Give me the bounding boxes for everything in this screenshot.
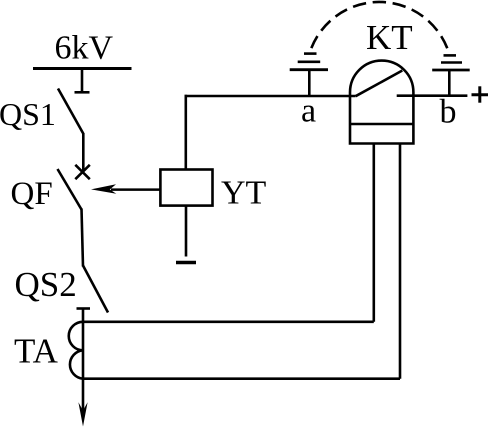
- contact a stub: [308, 70, 311, 96]
- wire: QS1 to breaker QF: [82, 133, 85, 172]
- wire: YT top vertical: [185, 95, 188, 170]
- svg-text:b: b: [440, 94, 457, 131]
- svg-text:QS2: QS2: [15, 265, 77, 304]
- svg-text:TA: TA: [14, 332, 59, 371]
- wire: KT inner terminal vertical: [372, 143, 375, 322]
- arrowhead outgoing feeder: [78, 402, 87, 426]
- svg-text:YT: YT: [221, 175, 267, 212]
- svg-text:QS1: QS1: [0, 96, 56, 132]
- breaker contact cross X: [75, 165, 90, 179]
- current transformer TA winding bumps: [69, 322, 83, 379]
- contact b stub: [448, 70, 451, 96]
- arrow YT to QF: [111, 188, 160, 191]
- disconnector QS1 blade: [58, 89, 84, 135]
- busbar 6kV: [33, 67, 132, 70]
- relay YT box: [160, 170, 212, 206]
- wire: contact b horizontal to plus: [397, 94, 468, 97]
- wire: top horizontal to KT contact a: [185, 95, 356, 98]
- time relay KT dome outline: [350, 61, 413, 144]
- svg-text:QF: QF: [11, 176, 53, 212]
- minus terminal below YT: [176, 261, 196, 264]
- circuit breaker QF blade: [58, 169, 82, 210]
- wire: busbar stub down to QS1 fixed contact: [81, 69, 84, 93]
- QS1 fixed contact T-bar: [75, 91, 90, 94]
- contact a plates: [298, 60, 321, 63]
- disconnector QS2 blade: [83, 266, 108, 313]
- svg-text:a: a: [301, 93, 316, 130]
- wire: KT outer terminal vertical: [399, 143, 402, 379]
- QS2 fixed contact T-bar: [77, 307, 91, 310]
- svg-text:6kV: 6kV: [55, 30, 114, 67]
- wire: YT bottom vertical: [185, 206, 188, 257]
- wire: QS2 down through TA to arrow: [82, 309, 85, 414]
- svg-text:KT: KT: [366, 18, 413, 57]
- wire: upper horizontal TA to KT coil left terminal: [83, 320, 374, 323]
- dashed mechanical linkage arc: [304, 2, 456, 55]
- wire: QF to QS2: [82, 209, 84, 267]
- contact b plates: [441, 61, 462, 64]
- KT body divider: [350, 123, 413, 126]
- wire: lower horizontal TA to KT coil right terminal: [83, 377, 400, 380]
- KT moving blade: [356, 71, 403, 97]
- label plus: [472, 86, 488, 102]
